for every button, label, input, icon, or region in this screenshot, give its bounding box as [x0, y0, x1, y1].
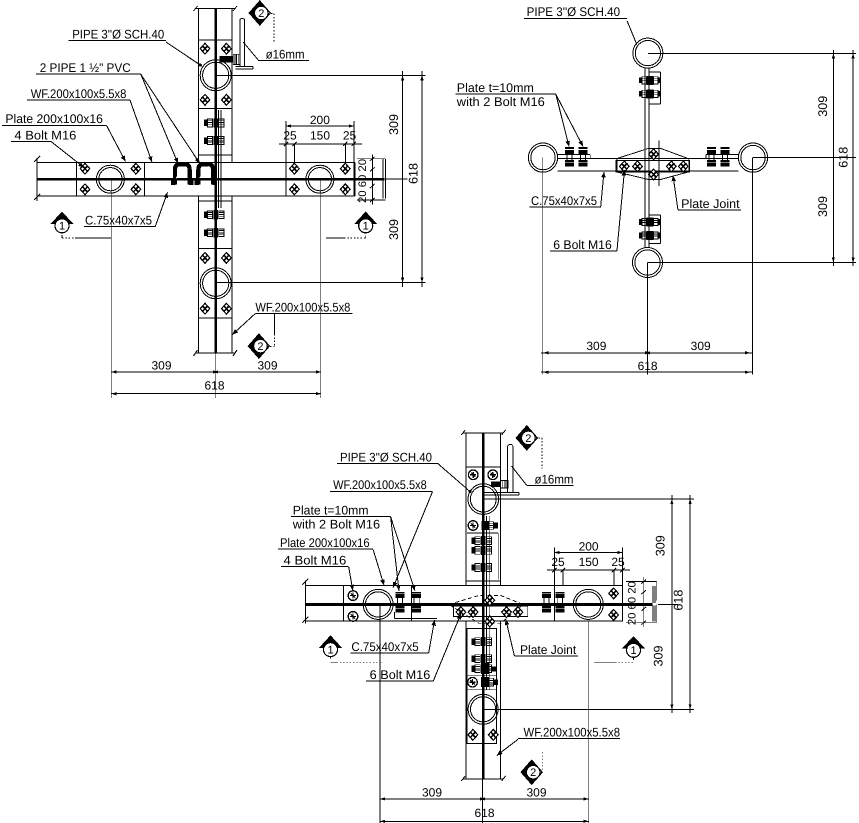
svg-text:6 Bolt M16: 6 Bolt M16 [553, 238, 612, 252]
svg-text:618: 618 [204, 379, 224, 393]
svg-text:309: 309 [816, 196, 830, 217]
svg-text:Plate t=10mm: Plate t=10mm [457, 81, 534, 95]
svg-text:C.75x40x7x5: C.75x40x7x5 [85, 214, 152, 228]
svg-text:309: 309 [526, 785, 546, 799]
svg-text:25: 25 [283, 129, 297, 143]
svg-text:2: 2 [530, 767, 536, 779]
svg-text:1: 1 [363, 221, 369, 233]
svg-text:309: 309 [691, 339, 711, 353]
svg-text:1: 1 [327, 644, 333, 656]
svg-text:309: 309 [816, 96, 830, 117]
svg-text:309: 309 [652, 645, 666, 666]
svg-text:6 Bolt M16: 6 Bolt M16 [370, 668, 431, 682]
svg-text:618: 618 [407, 163, 421, 184]
svg-text:309: 309 [257, 359, 277, 373]
svg-text:150: 150 [310, 129, 330, 143]
svg-text:25: 25 [343, 129, 357, 143]
svg-text:ø16mm: ø16mm [535, 472, 574, 486]
svg-text:Plate 200x100x16: Plate 200x100x16 [5, 112, 103, 126]
svg-text:309: 309 [653, 535, 667, 556]
svg-text:150: 150 [579, 555, 599, 569]
svg-text:618: 618 [474, 806, 494, 820]
svg-text:Plate 200x100x16: Plate 200x100x16 [280, 536, 370, 550]
svg-text:Plate Joint: Plate Joint [520, 643, 577, 657]
svg-text:200: 200 [310, 113, 330, 127]
svg-text:618: 618 [672, 590, 686, 611]
svg-text:309: 309 [387, 219, 401, 240]
svg-text:309: 309 [586, 339, 606, 353]
svg-text:PIPE 3''Ø SCH.40: PIPE 3''Ø SCH.40 [340, 451, 432, 465]
svg-text:20 60 20: 20 60 20 [357, 159, 369, 203]
svg-text:1: 1 [59, 221, 65, 233]
svg-text:309: 309 [422, 785, 442, 799]
svg-text:WF.200x100x5.5x8: WF.200x100x5.5x8 [255, 300, 350, 314]
svg-text:WF.200x100x5.5x8: WF.200x100x5.5x8 [333, 478, 427, 492]
svg-text:2 PIPE 1 ½" PVC: 2 PIPE 1 ½" PVC [40, 61, 131, 75]
svg-text:1: 1 [630, 645, 636, 657]
svg-text:25: 25 [611, 555, 625, 569]
svg-text:PIPE 3''Ø SCH.40: PIPE 3''Ø SCH.40 [72, 28, 164, 42]
svg-text:309: 309 [151, 359, 171, 373]
svg-text:4 Bolt M16: 4 Bolt M16 [14, 128, 76, 142]
svg-text:200: 200 [579, 539, 599, 553]
svg-text:2: 2 [257, 341, 263, 353]
svg-text:with 2 Bolt M16: with 2 Bolt M16 [292, 517, 380, 531]
svg-text:WF.200x100x5.5x8: WF.200x100x5.5x8 [524, 725, 621, 739]
svg-text:4 Bolt M16: 4 Bolt M16 [284, 553, 347, 567]
svg-text:Plate t=10mm: Plate t=10mm [293, 503, 369, 517]
svg-text:2: 2 [258, 8, 264, 20]
svg-text:C.75x40x7x5: C.75x40x7x5 [351, 640, 418, 654]
svg-text:20 60 20: 20 60 20 [626, 581, 638, 625]
svg-text:2: 2 [525, 433, 531, 445]
svg-text:ø16mm: ø16mm [266, 47, 305, 61]
svg-text:309: 309 [387, 114, 401, 135]
svg-text:618: 618 [836, 147, 850, 168]
svg-text:C.75x40x7x5: C.75x40x7x5 [531, 194, 597, 208]
svg-text:Plate Joint: Plate Joint [681, 197, 740, 211]
svg-text:PIPE 3''Ø SCH.40: PIPE 3''Ø SCH.40 [527, 5, 621, 19]
svg-text:with 2 Bolt M16: with 2 Bolt M16 [456, 95, 545, 109]
svg-text:25: 25 [551, 555, 565, 569]
svg-text:618: 618 [638, 359, 658, 373]
svg-text:WF.200x100x5.5x8: WF.200x100x5.5x8 [31, 87, 127, 101]
